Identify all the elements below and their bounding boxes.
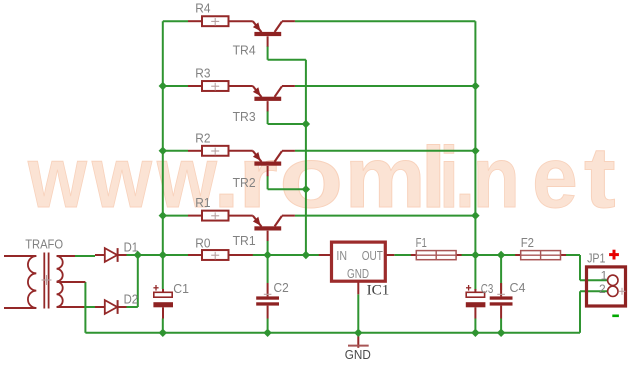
wire C2 bottom to bus [267,319,269,333]
wire F2 to JP1 pin1 [561,255,608,280]
resistor R4 [188,2,253,26]
svg-text:e: e [532,130,578,226]
resistor R1 [188,196,253,220]
svg-text:w: w [91,130,153,226]
wire IC1 OUT to F1 [394,254,416,256]
capacitor C2 [256,281,289,319]
transistor TR1 (PNP) [233,216,295,248]
transistor TR3 (PNP) [233,86,295,124]
wire bottom ground bus [85,332,580,334]
svg-text:JP1: JP1 [587,251,605,265]
svg-text:R1: R1 [195,196,210,210]
diode D1 [95,241,138,262]
svg-text:TR3: TR3 [233,110,256,124]
wire C2 top [267,255,269,283]
node C3 bus [471,329,479,337]
svg-text:D1: D1 [124,241,139,255]
svg-text:GND: GND [347,266,369,281]
connector JP1 [587,251,626,306]
wire C1 top [162,255,164,289]
node C4 bus [497,329,505,337]
wire left emitter rail [162,21,164,255]
wire D2 cathode up to main node [127,255,138,307]
node base bus TR3 [302,120,310,128]
svg-text:o: o [279,130,343,226]
svg-text:w: w [27,130,88,226]
resistor R0 [188,236,253,260]
node C4 main [497,251,505,259]
node collector TR1 [471,211,479,219]
node rail R2 [159,147,167,155]
wire TR3 collector to bus [295,85,476,87]
capacitor C3 (polarized) [466,282,494,318]
transformer TRAFO [4,236,85,308]
svg-text:R4: R4 [195,2,210,16]
wire collector bus vertical [474,21,476,255]
svg-text:n: n [473,130,521,226]
svg-text:C4: C4 [510,281,526,295]
svg-text:F1: F1 [416,236,427,250]
svg-text:TR4: TR4 [233,44,256,58]
watermark www.romli.net [27,130,616,226]
node collector main [471,251,479,259]
minus terminal label [612,315,619,318]
svg-text:R0: R0 [195,236,210,250]
fuse F1 [411,236,462,260]
wire rail to R4 [163,20,188,22]
wire main row R0 to IC1 IN [229,254,332,256]
wire C3 top [474,255,476,290]
node TR1 base main [263,251,271,259]
wire IC1 GND pin to bus [357,294,359,333]
fuse F2 [515,236,566,260]
wire transformer secondary bottom to D2 [84,306,95,308]
wire TR1 base down to main node [267,241,269,255]
node C1 bus [159,329,167,337]
capacitor C4 [490,281,526,319]
svg-text:m: m [345,130,426,226]
svg-text:OUT: OUT [362,248,383,263]
resistor R3 [188,67,253,91]
svg-text:R2: R2 [195,131,210,145]
wire TR3 base to base bus [268,111,306,124]
svg-text:t: t [584,130,616,226]
wire F1 to C4 node to F2 [456,254,521,256]
wire TR2 base to base bus [268,176,306,190]
resistor R2 [188,131,253,155]
node rail main [159,251,167,259]
svg-text:C1: C1 [173,282,189,296]
svg-text:R3: R3 [195,67,210,81]
regulator IC1 [319,242,395,298]
svg-text:F2: F2 [521,236,534,250]
node collector TR3 [471,82,479,90]
wire main row D1 to R0 [127,254,203,256]
svg-text:IC1: IC1 [367,283,390,299]
wire C3 bottom to bus [474,319,476,333]
ground GND [345,333,371,362]
wire base bus vertical [305,60,307,255]
svg-text:C3: C3 [481,282,494,296]
node base bus TR2 [302,185,310,193]
wire TR4 collector to bus [295,20,476,22]
node C2 bus [263,329,271,337]
wire TR4 base to base bus [268,46,306,60]
wire TR2 collector to bus [295,150,476,152]
svg-text:C2: C2 [274,281,289,295]
node rail R3 [159,82,167,90]
wire rail to R3 [163,85,188,87]
diode D2 [95,292,138,314]
wire ground bus to JP1 pin2 [580,291,608,333]
svg-text:D2: D2 [124,292,139,306]
wire rail to R2 [163,150,188,152]
wire C1 bottom to bus [162,319,164,333]
plus terminal label [609,250,619,260]
node D1 D2 join [134,251,142,259]
node GND bus [354,329,362,337]
wire transformer secondary top to D1 [75,255,95,257]
transistor TR2 (PNP) [233,151,295,190]
svg-text:TR1: TR1 [233,234,256,248]
wire C4 top [500,255,502,290]
capacitor C1 (polarized) [153,282,189,318]
svg-text:TR2: TR2 [233,176,256,190]
wire rail to R1 [163,215,188,217]
wire TR1 collector to bus [295,215,476,217]
svg-text:IN: IN [336,248,347,263]
node collector TR2 [471,147,479,155]
node rail R1 [159,211,167,219]
svg-text:TRAFO: TRAFO [25,236,63,251]
wire C4 bottom to bus [500,319,502,333]
transistor TR4 (PNP) [233,21,295,57]
svg-text:2: 2 [599,282,606,296]
wire transformer center tap to ground bus [84,282,86,333]
svg-text:GND: GND [345,348,371,362]
node base bus main [302,251,310,259]
svg-text:1: 1 [601,268,608,282]
